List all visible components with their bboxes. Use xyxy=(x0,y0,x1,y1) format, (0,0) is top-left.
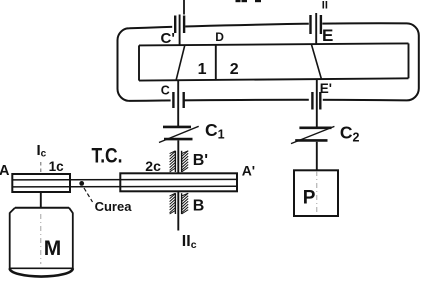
bearing B' hatched blocks xyxy=(170,151,189,172)
svg-text:A: A xyxy=(0,163,10,179)
bearing C' bars xyxy=(174,16,176,34)
divider D line xyxy=(215,44,217,80)
box P xyxy=(294,170,338,216)
lower-left shaft through housing bottom xyxy=(177,81,179,127)
bearing E bars xyxy=(309,15,311,34)
shaft to P xyxy=(316,142,318,171)
svg-text:P: P xyxy=(303,187,316,208)
motor shaft xyxy=(40,192,42,208)
svg-text:B: B xyxy=(193,198,205,215)
svg-text:2c: 2c xyxy=(145,158,161,174)
svg-text:II: II xyxy=(322,0,328,12)
svg-text:C: C xyxy=(161,83,170,97)
caption cut at top edge xyxy=(236,0,262,2)
wall gaps at bearings xyxy=(172,21,185,31)
inner shaft-span rectangle xyxy=(139,43,409,80)
svg-text:Ic: Ic xyxy=(37,142,47,160)
shaft IIc (left, down to belt drive) xyxy=(177,140,179,230)
bearing E' bars xyxy=(311,92,313,110)
svg-text:C': C' xyxy=(161,30,175,47)
slanted shaft segment (right, under E) xyxy=(312,45,322,79)
pulley 2c xyxy=(120,173,237,191)
motor M body xyxy=(10,208,73,277)
gearbox housing (outer rounded box) xyxy=(118,23,419,101)
lower-right shaft through housing bottom xyxy=(316,79,318,127)
svg-text:B': B' xyxy=(193,152,208,169)
slanted shaft segment (left, under C') xyxy=(176,45,185,80)
svg-text:Curea: Curea xyxy=(95,199,133,214)
belt point xyxy=(79,181,84,186)
pulley 1c xyxy=(12,174,70,192)
svg-text:IIc: IIc xyxy=(182,233,197,251)
bearing B hatched blocks xyxy=(170,193,189,214)
svg-text:2: 2 xyxy=(230,61,239,78)
motor axis dash xyxy=(40,214,42,264)
belt lines xyxy=(12,178,237,181)
shaft I stub at top xyxy=(183,0,185,15)
svg-text:E': E' xyxy=(320,81,332,96)
svg-text:E: E xyxy=(322,26,333,45)
clutch C2 xyxy=(291,126,334,143)
leader line to Curea xyxy=(84,188,93,202)
svg-text:D: D xyxy=(215,30,224,44)
svg-text:T.C.: T.C. xyxy=(92,145,123,168)
svg-text:A': A' xyxy=(242,163,255,179)
svg-text:C1: C1 xyxy=(205,120,225,142)
bearing C bars xyxy=(172,92,174,108)
svg-text:1: 1 xyxy=(198,61,207,78)
shaft II top xyxy=(315,13,317,44)
clutch C1 xyxy=(159,126,199,142)
axis dashes above pulley 1c xyxy=(40,162,42,173)
svg-text:C2: C2 xyxy=(340,123,360,145)
shaft I through housing top xyxy=(179,15,181,46)
svg-text:1c: 1c xyxy=(49,159,65,174)
svg-text:M: M xyxy=(44,237,62,260)
